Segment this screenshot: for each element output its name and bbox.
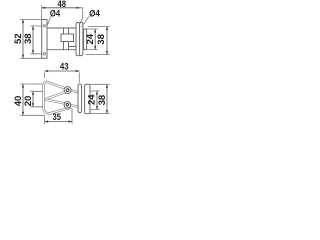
dim 20 line <box>32 91 34 107</box>
body bottom edge <box>47 49 76 51</box>
dim 35 left extension <box>44 116 46 124</box>
dim 48 line <box>42 7 80 9</box>
dim 20 bottom extension <box>31 106 43 108</box>
dim 35 line <box>45 121 72 123</box>
dim 52 top extension <box>21 19 42 21</box>
dim 20 top extension <box>31 90 43 92</box>
svg-text:Ø4: Ø4 <box>89 9 100 20</box>
shaft right edge <box>68 28 70 50</box>
wire outline outer <box>44 82 70 114</box>
dim 52 bottom extension <box>21 57 42 59</box>
svg-text:20: 20 <box>23 96 34 107</box>
svg-text:Ø4: Ø4 <box>50 9 61 20</box>
dim 40 line <box>22 84 24 115</box>
dim 38 top extension (view4) <box>86 83 109 85</box>
dim 48 left extension <box>41 6 43 19</box>
svg-text:38: 38 <box>23 33 34 44</box>
shaft left edge <box>63 28 65 50</box>
svg-text:38: 38 <box>97 95 108 106</box>
eyelet E2 inner <box>66 104 69 107</box>
dim 43 left extension <box>44 73 46 78</box>
svg-text:35: 35 <box>53 112 62 123</box>
knob K1 (edge view) <box>76 23 80 56</box>
svg-text:24: 24 <box>87 94 98 105</box>
dim 38 top extension <box>31 25 42 27</box>
dim 40 top extension <box>21 83 42 85</box>
wire V strand <box>46 92 65 103</box>
wire to bar upper <box>71 91 77 93</box>
dim 24 bottom extension (view2) <box>87 49 98 51</box>
svg-text:24: 24 <box>85 33 96 44</box>
block B1 <box>61 34 74 42</box>
dim 35 right extension <box>71 109 73 124</box>
dim 40 bottom extension <box>21 114 45 116</box>
dim 24 top extension (view2) <box>87 28 98 30</box>
dim 38 line (view4) <box>106 84 108 113</box>
dim 24 line (view4) <box>96 91 98 110</box>
body B2 <box>84 29 87 50</box>
svg-text:38: 38 <box>96 34 107 45</box>
dim 24 bottom extension (view4) <box>90 109 99 111</box>
svg-text:43: 43 <box>60 61 69 72</box>
dim 38 bottom extension <box>31 53 42 55</box>
plate P3 <box>85 84 90 113</box>
dim 38 line <box>32 26 34 54</box>
dim 24 top extension (view4) <box>90 90 99 92</box>
leader Ø4 view2 <box>82 17 89 27</box>
dim 43 right extension <box>78 73 80 83</box>
dim 38 bottom extension (view4) <box>86 113 109 115</box>
dim 38 bottom extension (view2) <box>86 54 109 56</box>
plate P1 (back plate, edge view) <box>42 20 47 59</box>
body top edge <box>47 27 76 29</box>
dim 43 line <box>45 70 80 72</box>
leader Ø4 view1 <box>47 18 50 25</box>
link line <box>69 46 77 48</box>
dim 52 line <box>22 20 24 59</box>
hole H2 (lower screw hole) <box>43 53 45 55</box>
eyelet E1 outer <box>64 87 71 94</box>
wire to bar lower <box>71 105 78 106</box>
hole H1 (upper screw hole) <box>43 25 45 27</box>
bar P2 (plate edge view) <box>78 84 82 113</box>
knob K2 profile <box>80 22 83 55</box>
dim 48 right corner leader <box>80 8 83 23</box>
dim 24 line (view2) <box>94 29 96 50</box>
eyelet E2 outer <box>64 102 71 109</box>
eyelet E1 inner <box>66 89 69 92</box>
dim 38 line (view2) <box>106 26 108 54</box>
dim 38 top extension (view2) <box>88 25 109 27</box>
